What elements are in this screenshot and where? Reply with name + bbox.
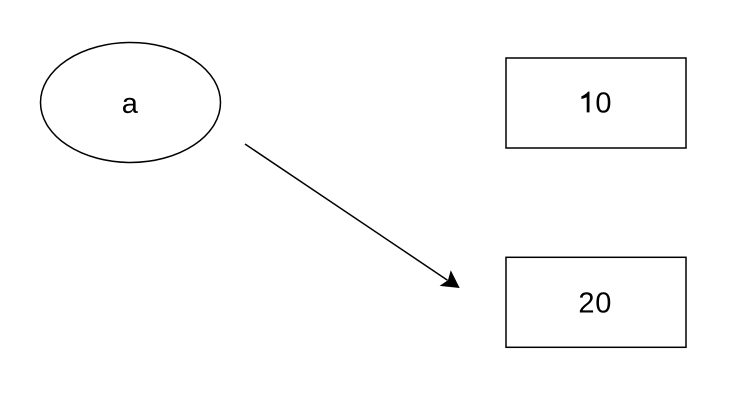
node 20 (rectangle) bbox=[506, 257, 686, 347]
svg-text:2: 2 bbox=[578, 287, 594, 319]
arrow from a to 20 bbox=[245, 144, 459, 287]
svg-text:0: 0 bbox=[595, 287, 611, 319]
digit 1 (footless) bbox=[581, 92, 589, 113]
node 10 (rectangle) bbox=[506, 58, 686, 148]
svg-text:0: 0 bbox=[595, 87, 611, 119]
svg-text:a: a bbox=[122, 88, 139, 120]
node a (ellipse) bbox=[41, 43, 221, 163]
